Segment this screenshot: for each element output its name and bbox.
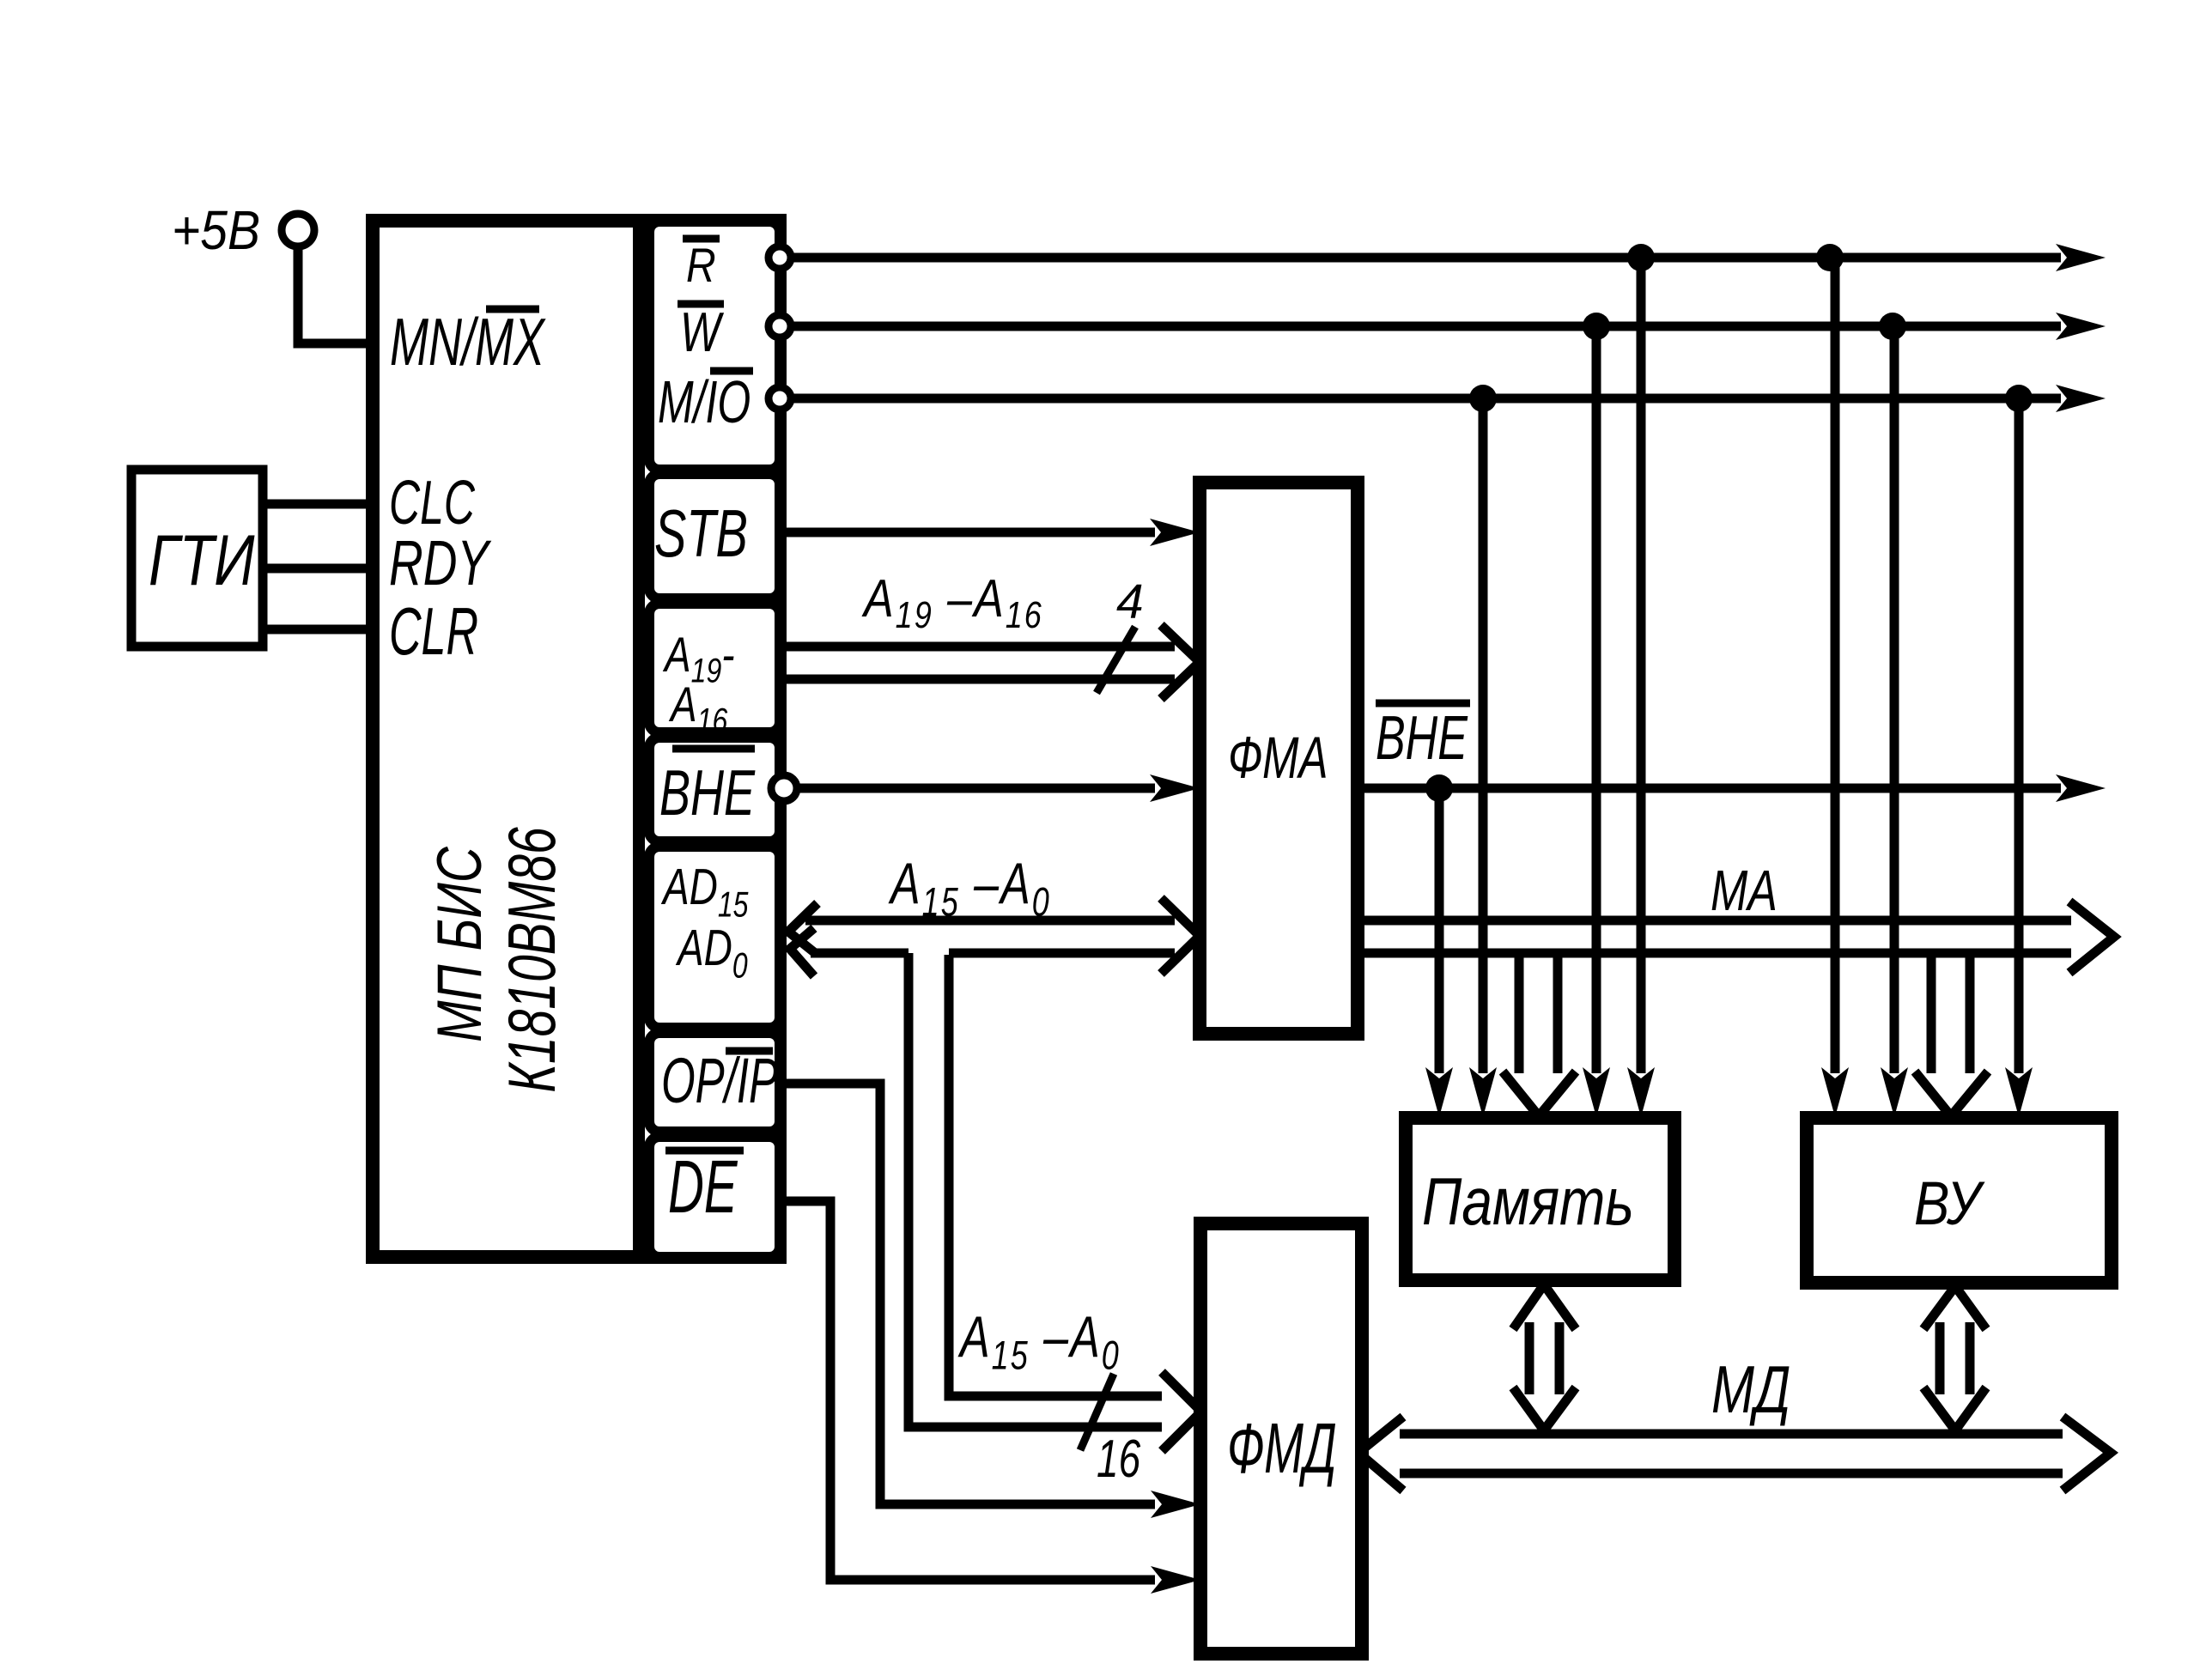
svg-text:RDY: RDY	[389, 527, 492, 598]
svg-text:W: W	[680, 302, 725, 364]
junction dot BHE	[1425, 774, 1453, 802]
svg-text:МА: МА	[1711, 859, 1777, 923]
junction dot W-VU	[1879, 313, 1906, 340]
svg-text:ВУ: ВУ	[1914, 1170, 1985, 1238]
svg-text:MN/MX: MN/MX	[390, 305, 546, 380]
wire GTI RDY	[263, 564, 373, 574]
svg-text:A15 –A0: A15 –A0	[957, 1303, 1120, 1377]
svg-text:4: 4	[1116, 574, 1144, 629]
pin box A19-A16	[649, 604, 780, 739]
junction dot W-memory	[1583, 313, 1610, 340]
junction dot R-VU	[1816, 244, 1844, 271]
pin box OP/IP	[649, 1033, 780, 1132]
junction dot M/IO-VU	[2005, 385, 2033, 412]
svg-text:STB: STB	[654, 496, 748, 571]
wire GTI CLC	[263, 500, 373, 509]
wire M/IO drop to memory	[1479, 398, 1488, 1073]
svg-text:DE: DE	[668, 1145, 738, 1229]
svg-text:M/IO: M/IO	[658, 368, 750, 435]
wire M/IO drop to VU	[2014, 398, 2024, 1073]
wire GTI CLR	[263, 625, 373, 635]
bus MD	[1358, 1417, 2111, 1491]
svg-text:OP/IP: OP/IP	[661, 1046, 778, 1117]
svg-text:МД: МД	[1711, 1351, 1790, 1426]
pin label MN/MX	[390, 305, 546, 380]
bus A15-A0 down to FMD	[908, 953, 1201, 1451]
wire DE to FMD	[780, 1201, 1155, 1580]
wire W bus line	[791, 322, 2061, 331]
svg-text:ФМД: ФМД	[1227, 1409, 1337, 1488]
pin box STB	[649, 474, 780, 598]
bus MA	[1358, 902, 2114, 973]
pin box AD15 AD0	[649, 847, 780, 1028]
address former FMA	[1200, 483, 1358, 1034]
svg-text:МП БИС: МП БИС	[424, 847, 495, 1042]
pin box R W M/IO	[649, 222, 780, 470]
pin circle W	[769, 315, 791, 337]
junction dot M/IO-memory	[1469, 385, 1497, 412]
svg-text:CLR: CLR	[389, 595, 478, 670]
wire W drop to memory	[1592, 326, 1601, 1073]
pin circle BHE	[771, 775, 797, 801]
pin circle M/IO	[769, 387, 791, 410]
svg-text:Память: Память	[1422, 1164, 1634, 1239]
bus VU to MD	[1923, 1286, 1986, 1430]
clock generator GTI	[131, 470, 263, 647]
wire OP/IP to FMD	[780, 1084, 1155, 1504]
svg-text:ГТИ: ГТИ	[149, 520, 255, 600]
bus AD15-AD0 to FMA	[788, 898, 1200, 976]
data former FMD	[1200, 1224, 1362, 1654]
wire BHE drop to memory	[1435, 788, 1444, 1073]
pin box BHE	[649, 738, 780, 841]
svg-text:BHE: BHE	[659, 756, 756, 829]
pin box DE	[649, 1137, 780, 1257]
wire R drop to VU	[1831, 258, 1840, 1073]
bus memory to MD	[1513, 1284, 1576, 1430]
svg-text:A15 –A0: A15 –A0	[888, 850, 1050, 924]
svg-text:К1810ВМ86: К1810ВМ86	[495, 827, 569, 1093]
microprocessor U1 K1810VM86 body	[373, 221, 780, 1257]
svg-text:16: 16	[1097, 1429, 1141, 1488]
bus MA drop to memory	[1503, 953, 1576, 1116]
pin circle R	[769, 246, 791, 269]
junction dot R-memory	[1627, 244, 1655, 271]
wire BHE right of FMA	[1358, 784, 2061, 793]
wire R drop to memory	[1637, 258, 1646, 1073]
svg-text:R: R	[686, 239, 716, 292]
memory block	[1406, 1118, 1674, 1280]
svg-text:+5В: +5В	[172, 199, 260, 261]
wire +5V to MN/MX pin	[298, 246, 373, 343]
wire R bus line	[791, 253, 2061, 263]
node +5V terminal	[172, 199, 314, 261]
bus MA drop to VU	[1915, 953, 1988, 1116]
wire W drop to VU	[1890, 326, 1899, 1073]
wire STB to FMA	[780, 528, 1155, 537]
svg-text:ФМА: ФМА	[1228, 724, 1328, 790]
external device VU block	[1807, 1118, 2112, 1283]
bus A19-A16 to FMA	[780, 625, 1200, 699]
wire BHE to FMA	[797, 784, 1155, 793]
wire M/IO bus line	[791, 394, 2061, 404]
label BHE net	[1376, 703, 1470, 773]
svg-text:BHE: BHE	[1376, 704, 1468, 774]
